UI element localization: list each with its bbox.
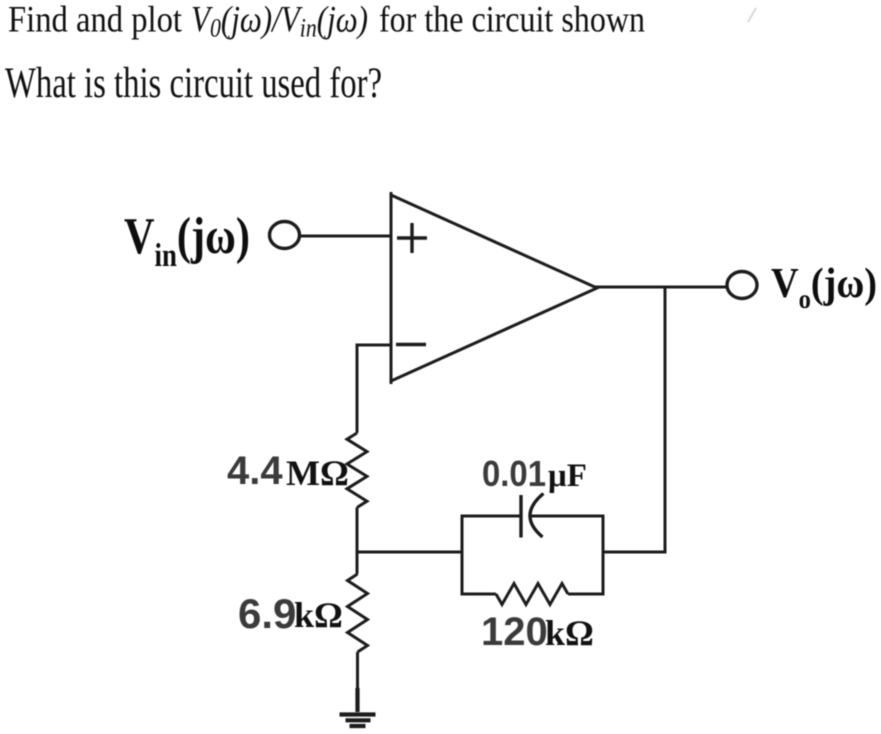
svg-text:MΩ: MΩ (286, 453, 349, 493)
svg-text:Vin(jω): Vin(jω) (124, 208, 250, 274)
resistor R1 4.4 MOhm (347, 433, 367, 507)
svg-text:kΩ: kΩ (545, 613, 594, 653)
capacitor C1 curved plate (530, 494, 543, 538)
wire parallel network to output branch (603, 551, 667, 554)
op-amp - pin mark (396, 343, 426, 346)
faint artifact top right (748, 8, 756, 22)
op-amp U1 triangle (391, 192, 597, 384)
parallel network left edge wire (461, 516, 464, 594)
wire output branch vertical (664, 286, 667, 554)
svg-text:6.9: 6.9 (238, 590, 296, 637)
wire ground lead thick (355, 688, 359, 712)
parallel network top-left wire (461, 515, 522, 518)
capacitor C1 left plate (519, 495, 522, 538)
ground symbol (340, 715, 376, 727)
wire op-amp inverting input to resistor 4.4M (357, 345, 391, 433)
svg-text:Find and plot: Find and plot (8, 0, 183, 41)
resistor R3 6.9k (348, 574, 368, 652)
op-amp + pin mark (397, 223, 427, 253)
node A wire to parallel network (356, 551, 463, 554)
svg-text:V0(jω)/Vin(jω): V0(jω)/Vin(jω) (191, 0, 368, 43)
wire node A to resistor 6.9k (356, 550, 359, 574)
parallel network bottom-left wire (461, 593, 497, 596)
input terminal circle (270, 222, 300, 249)
svg-text:120: 120 (481, 610, 548, 654)
wire op-amp output to terminal (595, 286, 727, 289)
parallel network top-right wire (531, 515, 605, 518)
parallel network bottom-right wire (568, 593, 605, 596)
resistor R2 120k zigzag (496, 584, 568, 605)
wire input terminal to op-amp + input (300, 235, 391, 238)
svg-text:for the circuit shown: for the circuit shown (379, 0, 645, 41)
svg-text:kΩ: kΩ (294, 595, 343, 635)
svg-text:Vo(jω): Vo(jω) (771, 261, 877, 314)
wire resistor 4.4M to node A (356, 508, 359, 554)
svg-text:μF: μF (548, 458, 587, 494)
output terminal circle (727, 272, 757, 299)
svg-text:0.01: 0.01 (482, 453, 546, 494)
svg-text:4.4: 4.4 (227, 449, 283, 493)
wire resistor 6.9k to ground (356, 652, 359, 690)
svg-text:What is this circuit used for: What is this circuit used for? (5, 60, 382, 107)
parallel network right edge wire (602, 516, 605, 594)
